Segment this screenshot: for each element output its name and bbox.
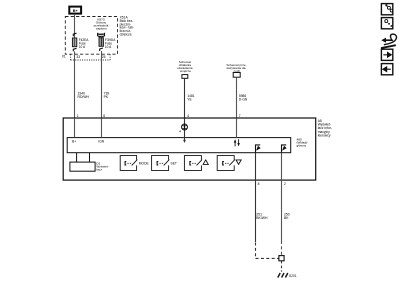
switch up-arrow — [184, 156, 208, 171]
toolbar icon: previous arrow — [381, 64, 392, 75]
svg-text:G201: G201 — [289, 274, 297, 278]
toolbar icon: schematic detail view 2 — [381, 18, 392, 29]
wire 1481 YE — [185, 78, 196, 118]
svg-text:MODE: MODE — [139, 161, 150, 165]
B+ supply symbol — [69, 7, 81, 14]
svg-text:2: 2 — [284, 182, 286, 186]
svg-text:8: 8 — [258, 182, 260, 186]
connector X1 dotted strip with pins 33 and 25 — [62, 54, 110, 60]
svg-text:B+: B+ — [73, 9, 78, 13]
svg-text:8: 8 — [103, 114, 105, 118]
serial data symbol up/down arrows — [234, 139, 240, 146]
fuse F42EA with terminals — [72, 33, 89, 51]
wire pin1 into inner box — [74, 118, 76, 137]
toolbar icon: schematic detail view 1 — [381, 4, 393, 15]
svg-text:1: 1 — [77, 114, 79, 118]
svg-text:33: 33 — [76, 55, 80, 59]
toolbar icon: next arrow — [381, 49, 392, 60]
svg-text:SET: SET — [171, 161, 177, 165]
svg-text:5986 D-GN: 5986 D-GN — [239, 94, 248, 102]
wire pin7 to serial data node — [236, 118, 238, 137]
ground G201 — [278, 273, 297, 278]
wire 250 BK — [282, 180, 291, 255]
wire 739 PK — [102, 51, 111, 118]
wire 5986 D-GN — [237, 77, 248, 118]
display D1 — [70, 153, 110, 172]
arrow input (dimming) below inner box edge — [183, 138, 186, 143]
relay K873 contact — [98, 33, 105, 37]
svg-text:IGN: IGN — [98, 139, 104, 143]
svg-text:X1: X1 — [62, 55, 66, 59]
svg-text:25: 25 — [102, 55, 106, 59]
off-page reference: Schemat przekazywania danych — [226, 63, 247, 77]
off-page reference: Schemat działania oświetlenia wnętrza — [177, 60, 193, 78]
wire 1940 RD/WH — [75, 51, 90, 118]
switch SET — [152, 156, 177, 171]
wire B+ down to fuse F42EA — [74, 14, 76, 38]
toolbar icon: jump to schematic (curved arrow) — [381, 34, 397, 49]
wire from hook to pin 2 bottom — [281, 153, 283, 181]
switch MODE — [120, 156, 149, 171]
wire from hook to pin 8 bottom — [255, 153, 257, 181]
svg-text:4: 4 — [187, 114, 189, 118]
internal switch contact to pin 2 (hook) — [282, 145, 287, 153]
internal switch contact to pin 8 (hook) — [256, 145, 261, 153]
switch down-arrow — [217, 156, 241, 171]
wire pin4 to lamp — [184, 118, 186, 137]
module A5 inner main section box — [67, 138, 291, 153]
splice junction — [279, 256, 284, 261]
module A5 outer box — [63, 118, 316, 180]
fuse F3HDA with terminal — [99, 37, 116, 52]
svg-text:B+: B+ — [72, 139, 76, 143]
lamp symbol (panel backlight) — [179, 124, 187, 132]
fuse block X51A dashed boundary — [65, 17, 117, 55]
wire pin8 into inner box — [101, 118, 103, 137]
wire 251 BK/WH — [256, 180, 279, 258]
svg-text:7: 7 — [239, 114, 241, 118]
dashed wire junction to ground — [281, 261, 283, 272]
